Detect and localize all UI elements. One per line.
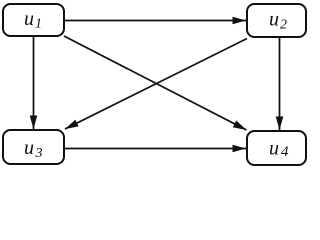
wire u1 to u3 xyxy=(33,36,35,129)
node u2 xyxy=(247,4,306,37)
wire u1 to u4 xyxy=(64,36,247,130)
node u3 xyxy=(3,130,64,164)
node u1 xyxy=(3,4,64,36)
wire u2 to u4 xyxy=(279,38,281,130)
node u4 xyxy=(247,131,306,165)
wire u2 to u3 xyxy=(65,39,247,130)
wire u3 to u4 xyxy=(65,148,246,150)
wire u1 to u2 xyxy=(65,20,246,22)
